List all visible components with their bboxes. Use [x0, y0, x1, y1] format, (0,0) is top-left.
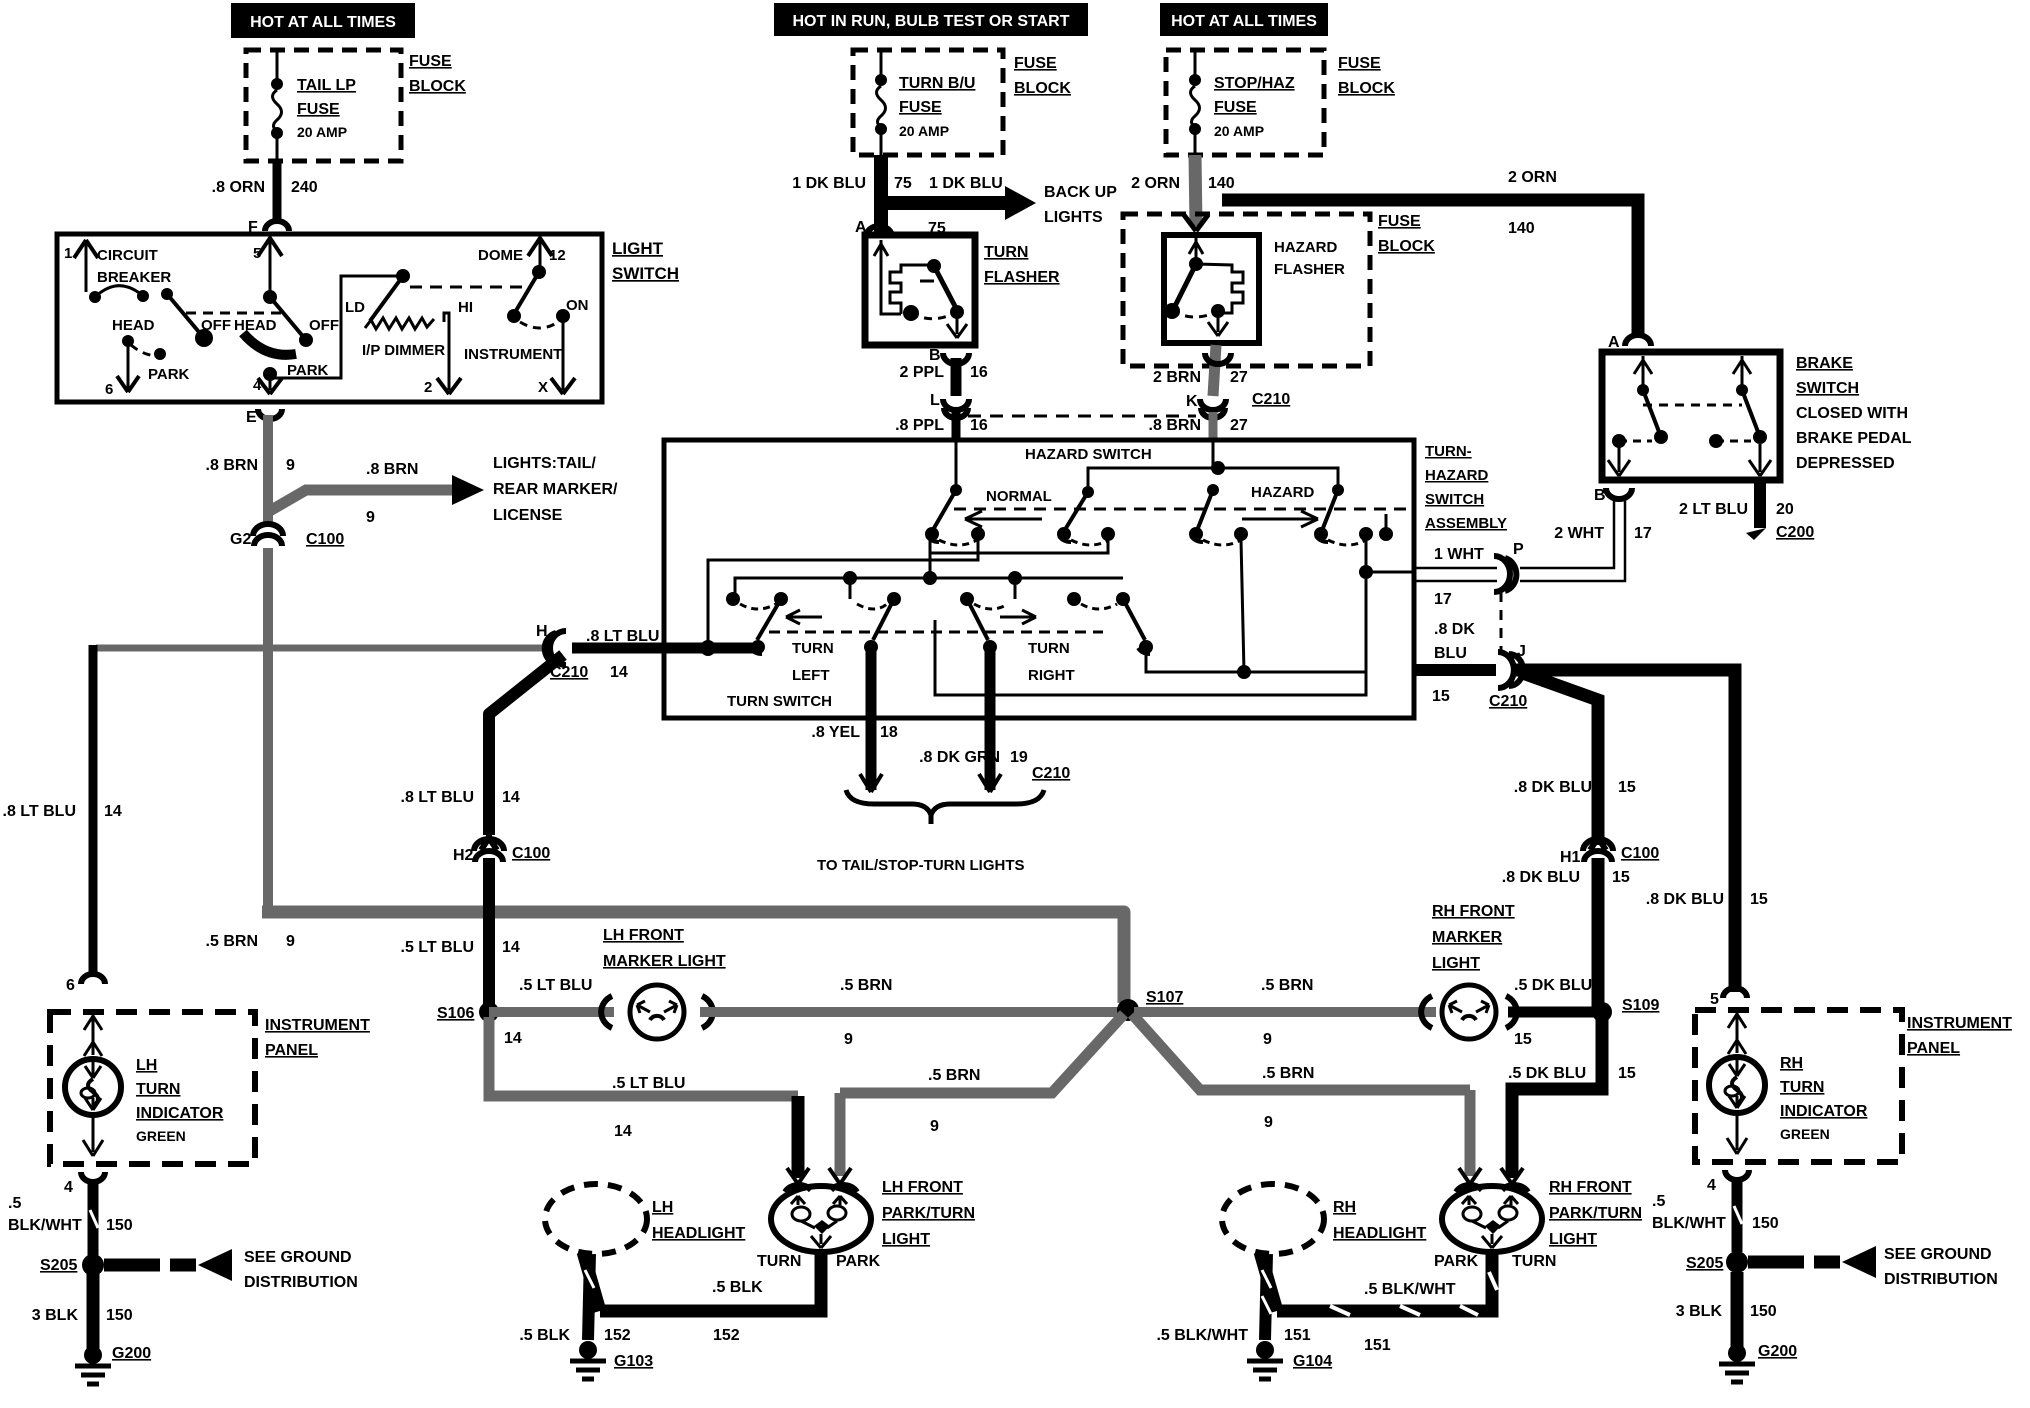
svg-text:2 LT BLU: 2 LT BLU: [1679, 501, 1748, 518]
turn flasher U1 box: [865, 235, 1060, 345]
svg-text:20: 20: [1776, 501, 1794, 518]
svg-text:.5 BLK: .5 BLK: [519, 1327, 570, 1344]
svg-text:15: 15: [1750, 891, 1768, 908]
arrow to BACK UP LIGHTS: [1005, 186, 1036, 220]
svg-text:H2: H2: [453, 847, 474, 864]
svg-text:INDICATOR: INDICATOR: [1780, 1103, 1868, 1120]
wire L feed into hazard switch: [955, 441, 958, 488]
I/P dimmer rheostat: [345, 269, 473, 396]
wire H to assembly (thick): [572, 643, 665, 654]
svg-text:DISTRIBUTION: DISTRIBUTION: [244, 1274, 358, 1291]
turn right arrow: [1000, 610, 1036, 624]
svg-text:PANEL: PANEL: [265, 1042, 318, 1059]
svg-text:REAR MARKER/: REAR MARKER/: [493, 481, 618, 498]
svg-text:5: 5: [1710, 991, 1719, 1008]
svg-text:LICENSE: LICENSE: [493, 507, 563, 524]
pin 5 arrow from F: [253, 236, 282, 295]
svg-text:C100: C100: [1621, 845, 1659, 862]
svg-text:LIGHT: LIGHT: [1432, 955, 1480, 972]
svg-text:C200: C200: [1776, 524, 1814, 541]
svg-text:TURN-: TURN-: [1425, 443, 1472, 460]
svg-text:.5 LT BLU: .5 LT BLU: [519, 977, 592, 994]
svg-text:G2: G2: [230, 531, 251, 548]
wire .8 DK GRN 19 out of turn switch: [985, 650, 996, 790]
connector C210 brace: [846, 765, 1070, 824]
svg-text:9: 9: [366, 509, 375, 526]
svg-text:.8 PPL: .8 PPL: [895, 417, 944, 434]
svg-text:.8 BRN: .8 BRN: [206, 457, 258, 474]
wire .5 BLK/WHT 150 RH: [1652, 1178, 1779, 1252]
svg-text:SWITCH: SWITCH: [1796, 380, 1859, 397]
svg-text:150: 150: [106, 1217, 133, 1234]
svg-text:MARKER LIGHT: MARKER LIGHT: [603, 953, 726, 970]
turn right wiper: [1123, 599, 1153, 654]
brake switch label: [1796, 355, 1912, 472]
svg-text:LIGHT: LIGHT: [882, 1231, 930, 1248]
turn left wiper: [750, 599, 781, 654]
wire RH headlight ground: [1156, 1252, 1310, 1344]
svg-text:OFF: OFF: [201, 317, 231, 334]
connector B (brake switch out): [1594, 487, 1632, 504]
svg-text:.8 LT BLU: .8 LT BLU: [3, 803, 76, 820]
wire 2 BRN 27 (halftone): [1213, 345, 1216, 396]
LH instrument panel (dashed): [50, 1012, 255, 1164]
wire J to right risers (thick): [1516, 670, 1735, 992]
svg-text:PARK: PARK: [287, 362, 329, 379]
svg-text:.5 BLK: .5 BLK: [712, 1279, 763, 1296]
wire .8 YEL 18 out of turn switch: [866, 650, 877, 790]
connector G2 C100: [230, 524, 344, 548]
ground G200 (RH): [1719, 1343, 1797, 1382]
wire 3 BLK 150 RH: [1676, 1272, 1777, 1350]
circuit breaker element: [89, 286, 213, 347]
svg-text:.5 BRN: .5 BRN: [1262, 1065, 1314, 1082]
svg-text:PARK/TURN: PARK/TURN: [1549, 1205, 1642, 1222]
svg-text:X: X: [538, 379, 548, 396]
connector B (turn flasher out): [929, 347, 969, 364]
svg-text:LD: LD: [345, 299, 365, 316]
svg-text:3 BLK: 3 BLK: [32, 1307, 79, 1324]
fuse block 2 (dashed): [853, 50, 1003, 155]
svg-text:.5 LT BLU: .5 LT BLU: [612, 1075, 685, 1092]
svg-text:151: 151: [1364, 1337, 1391, 1354]
svg-text:HOT AT ALL TIMES: HOT AT ALL TIMES: [250, 14, 396, 31]
svg-text:HOT IN RUN, BULB TEST OR START: HOT IN RUN, BULB TEST OR START: [792, 13, 1069, 30]
svg-text:BLOCK: BLOCK: [1014, 80, 1071, 97]
light switch box: [57, 234, 602, 402]
head/off/park contacts (center group, rotary wiper): [234, 290, 339, 394]
svg-text:OFF: OFF: [309, 317, 339, 334]
svg-text:TURN: TURN: [1028, 640, 1070, 657]
svg-text:HEAD: HEAD: [234, 317, 277, 334]
wire .8 DK BLU 15 H1 to S109: [1592, 858, 1605, 1012]
svg-text:BLOCK: BLOCK: [409, 78, 466, 95]
turn-hazard switch assembly box: [664, 440, 1414, 718]
svg-text:P: P: [1513, 541, 1524, 558]
svg-text:L: L: [930, 392, 940, 409]
RH headlight: [1222, 1184, 1427, 1254]
svg-text:27: 27: [1230, 417, 1248, 434]
fuse block 1 (dashed): [246, 50, 401, 161]
dashed line P to J: [1500, 592, 1503, 655]
svg-text:152: 152: [713, 1327, 740, 1344]
svg-text:TURN: TURN: [136, 1081, 180, 1098]
wire .5 BRN 9 S107 to RH marker (halftone): [1134, 1007, 1436, 1017]
left yel wiper: [850, 599, 894, 654]
svg-text:HI: HI: [458, 299, 473, 316]
svg-text:14: 14: [502, 939, 520, 956]
svg-text:15: 15: [1514, 1031, 1532, 1048]
svg-text:I/P DIMMER: I/P DIMMER: [362, 342, 445, 359]
svg-text:.5 BRN: .5 BRN: [1261, 977, 1313, 994]
wire .5 BRN 9 S107 down-left to LH park/turn (halftone): [829, 1014, 1124, 1184]
splice S205 (RH): [1686, 1246, 1998, 1288]
svg-text:4: 4: [64, 1179, 73, 1196]
svg-text:.8 BRN: .8 BRN: [1149, 417, 1201, 434]
svg-text:TURN: TURN: [1780, 1079, 1824, 1096]
wire left riser to LH indicator (thick): [89, 645, 98, 975]
dome switch: [464, 236, 589, 396]
wire .5 BRN 9 G2 down (halftone): [263, 548, 273, 907]
svg-text:CLOSED WITH: CLOSED WITH: [1796, 405, 1908, 422]
svg-text:.5: .5: [1652, 1193, 1665, 1210]
connector A (turn flasher): [855, 219, 946, 237]
hazard switch wiper 1: [925, 484, 985, 545]
wire .8 BRN 9 E to G2 (halftone): [263, 415, 273, 524]
wire .8 DK BLU 15 out of assembly to J (thick): [1414, 664, 1496, 676]
svg-text:.8 DK BLU: .8 DK BLU: [1502, 869, 1580, 886]
svg-text:SEE GROUND: SEE GROUND: [1884, 1246, 1992, 1263]
wire 2 LT BLU 20 to C200: [1679, 480, 1814, 541]
connector K C210: [1186, 391, 1290, 418]
svg-text:FUSE: FUSE: [1338, 55, 1381, 72]
wire 2 WHT 17 brake switch to P: [1520, 497, 1652, 581]
svg-text:BLK/WHT: BLK/WHT: [1652, 1215, 1726, 1232]
splice S205 (LH): [40, 1249, 358, 1291]
internal wiring right side: [935, 514, 1414, 695]
wire branch to back up lights: [881, 196, 1005, 210]
svg-text:2 ORN: 2 ORN: [1508, 169, 1557, 186]
fuse STOP/HAZ FUSE 20 AMP: [1189, 50, 1295, 155]
svg-text:140: 140: [1208, 175, 1235, 192]
svg-text:GREEN: GREEN: [1780, 1126, 1830, 1142]
RH front marker light: [1421, 903, 1517, 1039]
svg-text:DISTRIBUTION: DISTRIBUTION: [1884, 1271, 1998, 1288]
svg-text:150: 150: [1752, 1215, 1779, 1232]
svg-text:HEAD: HEAD: [112, 317, 155, 334]
svg-text:.5 BLK/WHT: .5 BLK/WHT: [1156, 1327, 1248, 1344]
svg-text:PARK/TURN: PARK/TURN: [882, 1205, 975, 1222]
svg-text:HAZARD: HAZARD: [1274, 239, 1337, 256]
svg-text:PARK: PARK: [1434, 1253, 1479, 1270]
brake switch box: [1602, 352, 1780, 480]
svg-text:.8 LT BLU: .8 LT BLU: [401, 789, 474, 806]
svg-text:.8 DK GRN: .8 DK GRN: [919, 749, 1000, 766]
turn left arrow: [786, 610, 822, 624]
svg-text:6: 6: [66, 977, 75, 994]
svg-text:S205: S205: [1686, 1255, 1723, 1272]
svg-text:TURN: TURN: [792, 640, 834, 657]
hazard switch wiper 2: [1057, 486, 1115, 545]
hazard switch wiper 3: [1189, 484, 1248, 545]
svg-text:PARK: PARK: [148, 366, 190, 383]
svg-text:17: 17: [1634, 525, 1652, 542]
RH front park/turn light: [1434, 1179, 1642, 1270]
splice S106: [437, 1002, 522, 1047]
svg-text:.5 DK BLU: .5 DK BLU: [1514, 977, 1592, 994]
connector H1 C100: [1502, 838, 1660, 886]
svg-text:151: 151: [1284, 1327, 1311, 1344]
svg-text:18: 18: [880, 724, 898, 741]
svg-text:BLOCK: BLOCK: [1378, 238, 1435, 255]
head/off/park contacts (left group): [105, 317, 231, 398]
wire K feed into hazard switch: [1212, 441, 1215, 468]
svg-text:STOP/HAZ: STOP/HAZ: [1214, 75, 1295, 92]
svg-text:HAZARD: HAZARD: [1251, 484, 1314, 501]
connector J C210: [1432, 652, 1527, 710]
brake switch contacts: [1608, 356, 1771, 476]
svg-text:LIGHT: LIGHT: [612, 239, 664, 258]
svg-text:BLU: BLU: [1434, 645, 1467, 662]
svg-text:PANEL: PANEL: [1907, 1040, 1960, 1057]
svg-text:9: 9: [286, 457, 295, 474]
svg-text:BACK UP: BACK UP: [1044, 184, 1117, 201]
svg-text:9: 9: [844, 1031, 853, 1048]
svg-text:LEFT: LEFT: [792, 667, 830, 684]
svg-text:G200: G200: [112, 1345, 151, 1362]
arrow right (hazard): [1242, 511, 1318, 527]
turn flasher internal element: [874, 240, 967, 338]
svg-text:140: 140: [1508, 220, 1535, 237]
wire branch to tail lights (halftone): [268, 490, 452, 512]
connector E: [246, 409, 282, 426]
svg-text:20 AMP: 20 AMP: [1214, 123, 1264, 139]
svg-text:HEADLIGHT: HEADLIGHT: [652, 1225, 746, 1242]
feed label HOT IN RUN, BULB TEST OR START: [774, 3, 1088, 36]
svg-text:DOME: DOME: [478, 247, 523, 264]
svg-text:1 WHT: 1 WHT: [1434, 546, 1484, 563]
wire .8 BRN 27 (halftone): [1209, 412, 1218, 441]
svg-text:INSTRUMENT: INSTRUMENT: [265, 1017, 370, 1034]
dashed link dimmer to dome switch: [410, 286, 524, 289]
LH headlight: [545, 1184, 746, 1254]
svg-text:C210: C210: [1252, 391, 1290, 408]
svg-text:TURN: TURN: [757, 1253, 801, 1270]
connector 4 (RH): [1707, 1170, 1749, 1194]
svg-text:BRAKE: BRAKE: [1796, 355, 1853, 372]
svg-text:5: 5: [253, 245, 261, 262]
hazard flasher U2 box: [1164, 235, 1345, 343]
svg-text:LH FRONT: LH FRONT: [603, 927, 684, 944]
connector A (brake switch): [1608, 334, 1651, 351]
RH instrument panel (dashed): [1695, 1010, 1902, 1162]
svg-text:240: 240: [291, 179, 318, 196]
svg-text:.5 DK BLU: .5 DK BLU: [1508, 1065, 1586, 1082]
fuse TURN B/U FUSE 20 AMP: [875, 50, 975, 155]
wire J branch to H1 riser (thick): [1520, 672, 1598, 845]
svg-text:.5 BRN: .5 BRN: [928, 1067, 980, 1084]
svg-text:.8 ORN: .8 ORN: [212, 179, 265, 196]
turn switch contacts row: [726, 592, 1130, 609]
svg-text:150: 150: [106, 1307, 133, 1324]
svg-text:.5 BLK/WHT: .5 BLK/WHT: [1364, 1281, 1456, 1298]
svg-text:14: 14: [104, 803, 122, 820]
wire .5 BRN long run to S107 (halftone): [268, 912, 1124, 1003]
pin 1 circuit breaker arrow: [64, 240, 171, 292]
splice S109: [1592, 997, 1659, 1022]
svg-text:CIRCUIT: CIRCUIT: [97, 247, 158, 264]
svg-text:1: 1: [64, 245, 72, 262]
svg-text:.8 DK BLU: .8 DK BLU: [1514, 779, 1592, 796]
svg-text:FUSE: FUSE: [1378, 213, 1421, 230]
wire .8 LT BLU 14 left run to H (halftone): [96, 645, 552, 652]
svg-text:.5 LT BLU: .5 LT BLU: [401, 939, 474, 956]
svg-text:SWITCH: SWITCH: [1425, 491, 1484, 508]
svg-text:HAZARD: HAZARD: [1425, 467, 1488, 484]
svg-text:G103: G103: [614, 1353, 653, 1370]
svg-text:PARK: PARK: [836, 1253, 881, 1270]
svg-text:TURN SWITCH: TURN SWITCH: [727, 693, 832, 710]
arrows at C210 ends: [860, 774, 1001, 792]
svg-text:9: 9: [930, 1118, 939, 1135]
ground G103: [570, 1341, 653, 1379]
svg-text:20 AMP: 20 AMP: [297, 124, 347, 140]
connector H2 C100: [453, 835, 550, 864]
wire 1 DK BLU 75 fuse2 to A (heavy): [874, 155, 888, 232]
svg-text:15: 15: [1618, 779, 1636, 796]
svg-text:LH: LH: [652, 1199, 673, 1216]
wire .5 BLK/WHT 150 LH: [8, 1180, 133, 1256]
svg-text:2 BRN: 2 BRN: [1153, 369, 1201, 386]
feed label HOT AT ALL TIMES (left): [231, 3, 415, 38]
svg-text:27: 27: [1230, 369, 1248, 386]
svg-text:ASSEMBLY: ASSEMBLY: [1425, 515, 1507, 532]
wire .5 DK BLU 15 RH marker to S109: [1508, 1007, 1600, 1018]
svg-text:15: 15: [1612, 869, 1630, 886]
svg-text:MARKER: MARKER: [1432, 929, 1503, 946]
svg-text:BLK/WHT: BLK/WHT: [8, 1217, 82, 1234]
right grn wiper: [967, 599, 997, 654]
ground G200 (LH): [75, 1345, 151, 1384]
svg-text:14: 14: [504, 1030, 522, 1047]
feed label HOT AT ALL TIMES (right): [1160, 3, 1328, 36]
LH front marker light: [601, 927, 726, 1039]
svg-text:FLASHER: FLASHER: [984, 269, 1060, 286]
wire .8 LT BLU 14 into assembly (thick): [660, 640, 758, 656]
svg-text:1 DK BLU: 1 DK BLU: [792, 175, 866, 192]
svg-text:16: 16: [970, 364, 988, 381]
dashed link between OFF positions: [186, 312, 282, 315]
wire park feed to dimmer wiper: [272, 276, 401, 378]
svg-text:H1: H1: [1560, 849, 1581, 866]
svg-text:FUSE: FUSE: [409, 53, 452, 70]
svg-text:FUSE: FUSE: [297, 101, 340, 118]
svg-text:9: 9: [1263, 1031, 1272, 1048]
connector F: [248, 219, 289, 236]
dashed connector line L to K: [968, 415, 1196, 418]
svg-text:A: A: [1608, 334, 1620, 351]
svg-text:TAIL LP: TAIL LP: [297, 77, 356, 94]
wire LH headlight ground: [519, 1252, 630, 1344]
svg-text:14: 14: [610, 664, 628, 681]
svg-text:.8 BRN: .8 BRN: [366, 461, 418, 478]
svg-text:INSTRUMENT: INSTRUMENT: [464, 346, 562, 363]
svg-text:TURN: TURN: [984, 244, 1028, 261]
connector 6 (LH indicator): [66, 974, 105, 994]
wire .8 ORN 240 fuse to F: [273, 161, 282, 224]
hazard switch wiper 4: [1314, 484, 1373, 545]
svg-text:14: 14: [614, 1123, 632, 1140]
svg-text:LH FRONT: LH FRONT: [882, 1179, 963, 1196]
svg-text:14: 14: [502, 789, 520, 806]
svg-text:INSTRUMENT: INSTRUMENT: [1907, 1015, 2012, 1032]
svg-text:HEADLIGHT: HEADLIGHT: [1333, 1225, 1427, 1242]
svg-text:RH FRONT: RH FRONT: [1432, 903, 1515, 920]
svg-text:9: 9: [1264, 1114, 1273, 1131]
splice S107: [1117, 989, 1183, 1021]
svg-text:2: 2: [424, 379, 432, 396]
connector L C210: [930, 392, 969, 418]
svg-text:15: 15: [1618, 1065, 1636, 1082]
svg-text:TURN B/U: TURN B/U: [899, 75, 975, 92]
svg-text:G200: G200: [1758, 1343, 1797, 1360]
RH turn indicator lamp: [1709, 1010, 1868, 1154]
wire .5 BRN 9 marker to S107 (halftone): [700, 1007, 1120, 1017]
svg-text:152: 152: [604, 1327, 631, 1344]
wire .5 LT BLU S106 to LH marker light (halftone): [489, 1007, 614, 1017]
svg-text:4: 4: [253, 377, 262, 394]
hazard switch travel dashed line: [954, 508, 1410, 511]
connector P: [1414, 541, 1524, 592]
wire .5 BLK 152 park/turn to ground run: [600, 1252, 821, 1344]
svg-text:NORMAL: NORMAL: [986, 488, 1052, 505]
svg-text:19: 19: [1010, 749, 1028, 766]
fuse TAIL LP FUSE 20 AMP: [271, 50, 356, 161]
svg-text:C100: C100: [512, 845, 550, 862]
svg-text:15: 15: [1432, 688, 1450, 705]
wire .5 BLK/WHT park/turn to ground run: [1277, 1252, 1497, 1354]
hazard flasher internal element: [1164, 238, 1243, 336]
svg-text:RIGHT: RIGHT: [1028, 667, 1075, 684]
svg-text:FUSE: FUSE: [1014, 55, 1057, 72]
svg-text:150: 150: [1750, 1303, 1777, 1320]
wire .5 LT BLU 14 H2 to S106 (thick): [483, 858, 495, 1012]
svg-text:1 DK BLU: 1 DK BLU: [929, 175, 1003, 192]
LH front park/turn light: [757, 1179, 975, 1270]
arrow left (normal): [965, 511, 1042, 527]
svg-text:RH: RH: [1333, 1199, 1356, 1216]
svg-text:LH: LH: [136, 1057, 157, 1074]
turn switch travel dashed line: [769, 631, 1103, 634]
svg-text:.5: .5: [8, 1195, 21, 1212]
svg-text:.8 DK: .8 DK: [1434, 621, 1475, 638]
svg-text:FUSE: FUSE: [899, 99, 942, 116]
svg-text:ON: ON: [566, 297, 589, 314]
wire 3 BLK 150 LH: [32, 1274, 133, 1352]
svg-text:TO TAIL/STOP-TURN LIGHTS: TO TAIL/STOP-TURN LIGHTS: [817, 857, 1025, 874]
arrow to LIGHTS:TAIL/REAR MARKER/LICENSE: [452, 475, 484, 505]
svg-text:RH FRONT: RH FRONT: [1549, 1179, 1632, 1196]
svg-text:DEPRESSED: DEPRESSED: [1796, 455, 1895, 472]
svg-text:FUSE: FUSE: [1214, 99, 1257, 116]
svg-text:2 WHT: 2 WHT: [1554, 525, 1604, 542]
svg-text:.8 DK BLU: .8 DK BLU: [1646, 891, 1724, 908]
wire 2 ORN 140 fuse3 to hazard flasher (halftone): [1195, 155, 1196, 226]
svg-text:17: 17: [1434, 591, 1452, 608]
svg-text:BLOCK: BLOCK: [1338, 80, 1395, 97]
svg-text:.5 BRN: .5 BRN: [840, 977, 892, 994]
svg-text:LIGHT: LIGHT: [1549, 1231, 1597, 1248]
